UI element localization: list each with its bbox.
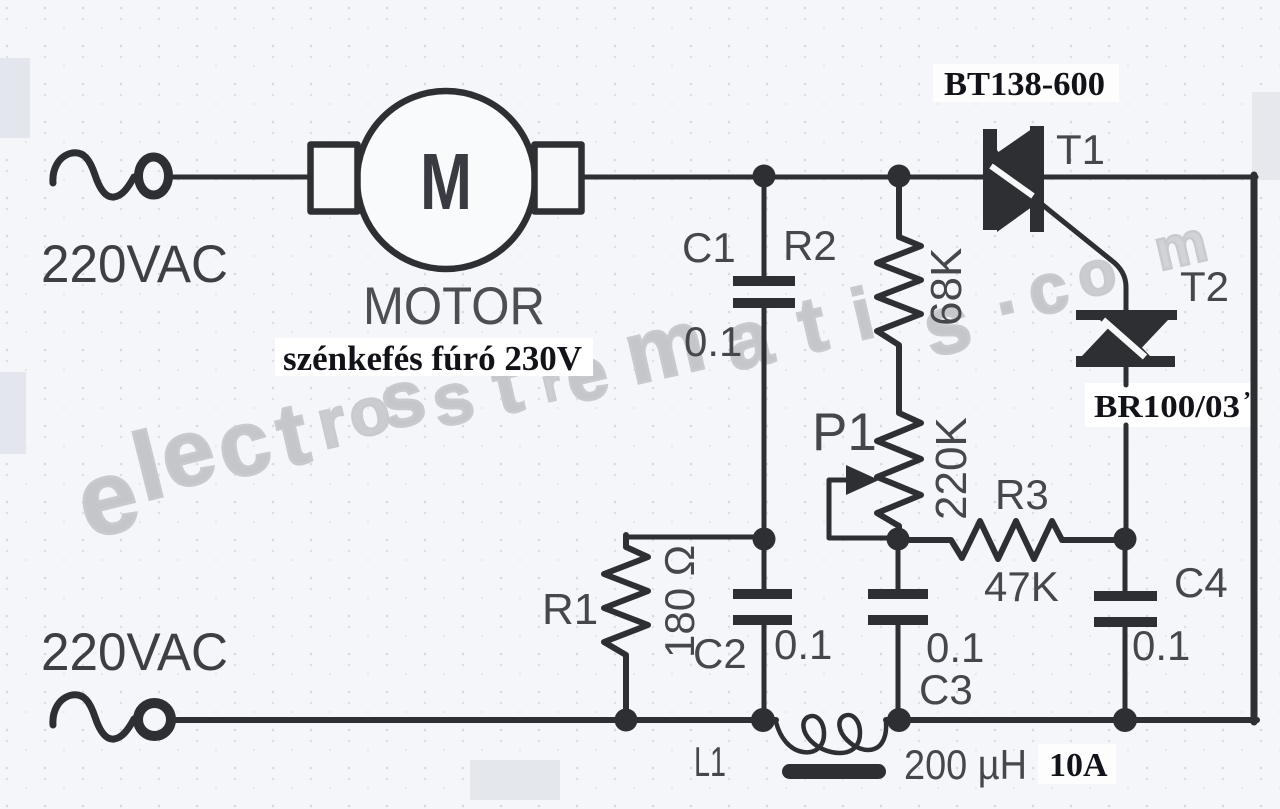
svg-text:R2: R2 — [783, 222, 837, 269]
node bottom C3 — [887, 708, 911, 732]
wire bottom rail left — [172, 717, 776, 723]
svg-text:C3: C3 — [919, 666, 973, 713]
svg-text:L1: L1 — [694, 738, 726, 785]
svg-text:220K: 220K — [927, 417, 976, 520]
resistor R2 — [877, 179, 921, 413]
svg-text:220VAC: 220VAC — [41, 623, 228, 682]
svg-text:P1: P1 — [812, 403, 877, 462]
svg-text:C2: C2 — [693, 630, 747, 677]
svg-text:0.1: 0.1 — [1132, 622, 1190, 669]
inductor L1 coil — [776, 715, 886, 753]
wire triac to right edge — [1042, 175, 1256, 180]
wire motor to triac — [583, 175, 985, 180]
AC source bottom sine — [53, 695, 134, 739]
node mid R3/C4 — [1114, 528, 1137, 551]
P1 wiper arrow — [846, 465, 879, 495]
capacitor C1 — [733, 276, 795, 286]
svg-text:200 µH: 200 µH — [904, 741, 1027, 788]
svg-text:47K: 47K — [984, 563, 1059, 610]
AC source top sine — [53, 153, 134, 197]
wire diac to label gap — [1124, 367, 1129, 385]
svg-text:0.1: 0.1 — [774, 621, 832, 668]
triac T1 — [983, 126, 1044, 232]
resistor R1 — [604, 535, 648, 718]
capacitor C2 — [762, 540, 767, 718]
diac T2 — [1076, 310, 1177, 367]
wire node row left (R1 top to C1/C2 node) — [626, 535, 762, 540]
diac T2 highlight slash — [1103, 320, 1145, 357]
svg-text:M: M — [420, 137, 472, 226]
wire T2 column to node — [1124, 425, 1129, 540]
wire bottom rail right — [886, 717, 1257, 723]
triac T1 highlight slash — [991, 166, 1033, 196]
svg-text:T1: T1 — [1056, 126, 1105, 173]
node mid P1 — [887, 528, 910, 551]
wire right edge — [1251, 175, 1258, 722]
white label bands — [275, 338, 593, 376]
svg-text:T2: T2 — [1180, 263, 1229, 310]
capacitor C3 — [896, 540, 901, 718]
svg-text:0.1: 0.1 — [926, 624, 984, 671]
capacitor C4 — [1123, 540, 1128, 718]
watermark artifacts — [0, 58, 30, 138]
node bottom C4 — [1113, 708, 1137, 732]
potentiometer P1 — [877, 413, 921, 538]
svg-text:szénkefés fúró 230V: szénkefés fúró 230V — [283, 339, 582, 378]
svg-text:68K: 68K — [922, 248, 971, 326]
wire top-left — [171, 175, 309, 180]
AC terminal bottom — [138, 703, 171, 736]
wire C1 drop — [762, 179, 767, 277]
svg-text:220VAC: 220VAC — [41, 235, 228, 294]
svg-text:10A: 10A — [1049, 747, 1108, 784]
node bottom C2 — [751, 708, 775, 732]
P1 wiper loop wire — [829, 480, 895, 538]
svg-text:’: ’ — [1243, 388, 1251, 414]
AC terminal top — [139, 157, 169, 195]
svg-text:MOTOR: MOTOR — [363, 277, 545, 336]
svg-text:R1: R1 — [542, 585, 598, 634]
motor M1 body — [357, 91, 535, 269]
node bottom R1 — [615, 709, 638, 732]
inductor L1 core bar — [782, 764, 886, 779]
svg-text:0.1: 0.1 — [684, 318, 742, 365]
triac T1 gate wire — [1039, 202, 1126, 312]
svg-text:R3: R3 — [995, 471, 1049, 518]
svg-text:BT138-600: BT138-600 — [944, 66, 1105, 103]
watermark electroschematics.com — [65, 209, 1213, 562]
resistor R3 — [899, 521, 1123, 559]
svg-text:C1: C1 — [682, 224, 736, 271]
node mid C1/C2 — [753, 528, 776, 551]
node top R2 — [888, 165, 911, 188]
svg-text:C4: C4 — [1174, 559, 1228, 606]
wire C1 to node — [762, 308, 767, 537]
node top C1 — [753, 165, 776, 188]
motor brush right — [535, 145, 582, 212]
motor brush left — [311, 145, 358, 212]
svg-text:BR100/03: BR100/03 — [1094, 388, 1240, 424]
